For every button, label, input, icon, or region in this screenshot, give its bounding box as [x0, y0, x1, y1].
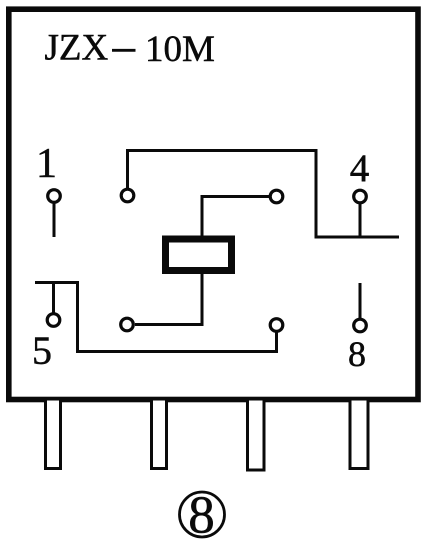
- wire stub pin 4: [359, 204, 362, 237]
- terminal circle pin 4: [354, 190, 367, 203]
- terminal circle pin 2 (top left inner): [121, 189, 134, 202]
- svg-text:1: 1: [36, 141, 57, 187]
- terminal circle pin 6 (bottom left inner): [121, 318, 134, 331]
- svg-text:5: 5: [32, 328, 52, 373]
- wire stub pin 8: [359, 283, 362, 318]
- terminal circle pin 7 (bottom right inner): [270, 319, 283, 332]
- wire pin 2 to pin 4 net: [128, 151, 400, 238]
- svg-text:4: 4: [350, 147, 370, 190]
- svg-text:JZX: JZX: [45, 28, 109, 69]
- terminal circle pin 3 (top right inner): [270, 190, 283, 203]
- wire pin 7 to pin 5 net: [35, 283, 277, 352]
- svg-text:8: 8: [188, 487, 215, 545]
- wire pin 3 to coil top: [202, 197, 269, 238]
- svg-text:8: 8: [348, 334, 366, 374]
- wire coil bottom to pin 6: [135, 274, 202, 325]
- relay case outline: [9, 9, 418, 399]
- label JZX-10M: [45, 28, 215, 71]
- terminal circle pin 8: [354, 319, 367, 332]
- svg-text:10M: 10M: [145, 29, 215, 70]
- relay coil: [166, 239, 232, 271]
- case lead 2: [152, 399, 167, 469]
- case lead 1: [46, 399, 61, 469]
- wire stub pin 1: [53, 204, 56, 238]
- case lead 3: [248, 399, 265, 470]
- wire stub pin 5: [52, 284, 55, 313]
- case lead 4: [350, 399, 368, 469]
- terminal circle pin 1: [48, 190, 61, 203]
- terminal circle pin 5: [47, 314, 60, 327]
- figure number circle: [180, 492, 225, 537]
